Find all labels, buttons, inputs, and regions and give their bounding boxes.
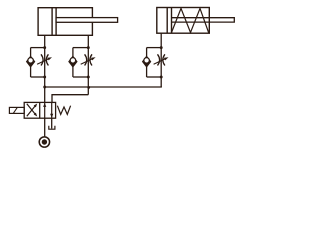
flow control valve FC2 frame rails [73, 47, 88, 49]
FC3 junction dots [160, 46, 163, 49]
wire B riser to valve port B [51, 94, 53, 102]
cylinder 1 piston rod [56, 18, 118, 23]
U1 left cell: crossed arrows [27, 106, 36, 117]
cylinder 1 (double-acting) body [38, 8, 92, 36]
FC2 junction dots [87, 46, 90, 49]
U1 return spring [57, 106, 70, 115]
U1 right cell: P->A up arrow [44, 103, 46, 118]
FC3 adjustability arrow [154, 58, 167, 64]
wire: cyl1 rod port / valve V2 main line down to corner [87, 35, 89, 94]
compressed air source [39, 137, 49, 147]
U1 exhaust stub [51, 118, 53, 128]
crossing node wire A / V2 line [87, 86, 90, 89]
U1 position divider [39, 102, 41, 118]
U1 right cell: B->R down arrow [51, 102, 53, 117]
FC3 check valve (diamond + ball) [143, 57, 151, 67]
flow control valve FC1 frame rails [31, 47, 45, 49]
cylinder 2 return spring [172, 8, 209, 32]
wire A horizontal (port A to V3) [45, 86, 162, 88]
cylinder 2 piston [166, 8, 168, 34]
cylinder 1 piston [51, 8, 53, 36]
U1 manual actuator [9, 107, 24, 113]
FC1 check valve (diamond + ball) [27, 57, 35, 67]
wire: cyl2 port / valve V3 main line down [160, 33, 162, 87]
FC1 junction dots [43, 46, 46, 49]
FC2 adjustability arrow [81, 58, 94, 64]
FC3 check-valve branch [146, 48, 148, 77]
FC2 check-valve branch [72, 48, 74, 77]
exhaust symbol [49, 126, 55, 130]
junction node at wire A / port-A line [43, 86, 46, 89]
FC1 throttle arcs [41, 54, 43, 65]
FC2 throttle arcs [85, 54, 87, 65]
cylinder 2 (single-acting, spring return) body [157, 8, 210, 34]
FC1 check-valve branch [30, 48, 32, 77]
cylinder 2 piston rod [172, 18, 235, 22]
flow control valve FC3 frame rails [147, 47, 162, 49]
FC2 check valve (diamond + ball) [69, 57, 77, 67]
wire B horizontal segment [52, 94, 88, 96]
FC3 throttle arcs [158, 54, 160, 65]
FC1 adjustability arrow [37, 58, 50, 64]
wire: cyl1 cap port / valve V1 main line / port A line down to source P [44, 35, 46, 137]
directional valve U1 body [24, 102, 55, 118]
